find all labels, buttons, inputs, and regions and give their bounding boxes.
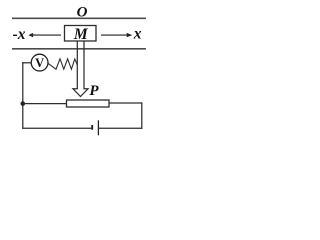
slider hollow arrowhead bbox=[73, 89, 88, 97]
arrow +x bbox=[101, 33, 132, 37]
battery long plate bbox=[97, 120, 99, 135]
svg-text:x: x bbox=[133, 26, 142, 43]
battery short plate bbox=[91, 125, 93, 130]
slider stem right line bbox=[83, 41, 85, 89]
resistor zigzag bbox=[48, 59, 77, 69]
arrow -x bbox=[28, 33, 61, 37]
wire left vertical bbox=[22, 62, 24, 129]
svg-text:M: M bbox=[73, 26, 89, 43]
wire bottom right bbox=[99, 127, 142, 129]
rail top bbox=[12, 17, 146, 19]
wire right vertical bbox=[141, 102, 143, 128]
junction dot bbox=[21, 101, 26, 106]
wire bottom left bbox=[22, 127, 92, 129]
slider stem left line bbox=[76, 41, 78, 89]
voltmeter V1 circle bbox=[31, 54, 48, 71]
wire pot left bbox=[23, 103, 67, 105]
potentiometer box P bbox=[67, 100, 110, 107]
wire pot right horizontal bbox=[109, 102, 142, 104]
wire voltmeter left stub bbox=[22, 62, 31, 64]
svg-text:-x: -x bbox=[13, 26, 26, 43]
svg-text:V: V bbox=[35, 56, 44, 70]
rail bottom bbox=[12, 48, 146, 50]
svg-text:O: O bbox=[77, 4, 88, 20]
block M box bbox=[65, 26, 97, 42]
svg-text:P: P bbox=[89, 83, 99, 99]
